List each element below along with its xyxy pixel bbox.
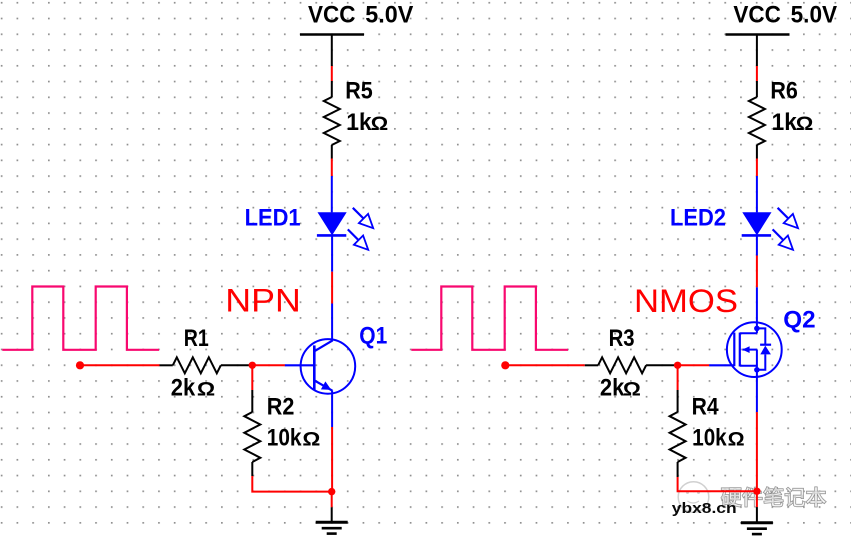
svg-text:LED1: LED1 (245, 204, 301, 231)
svg-text:R3: R3 (609, 325, 635, 352)
svg-text:ybx8.cn: ybx8.cn (672, 500, 737, 517)
svg-text:R5: R5 (345, 78, 373, 105)
svg-text:Ω: Ω (371, 113, 389, 135)
svg-text:Ω: Ω (197, 379, 215, 401)
svg-text:10k: 10k (267, 425, 302, 452)
svg-text:R1: R1 (184, 325, 209, 352)
svg-text:R4: R4 (692, 393, 720, 420)
svg-text:R2: R2 (267, 393, 295, 420)
svg-text:NPN: NPN (225, 283, 300, 319)
svg-text:1k: 1k (346, 109, 372, 136)
svg-text:Ω: Ω (796, 113, 814, 135)
svg-text:Ω: Ω (623, 379, 641, 401)
svg-text:2k: 2k (171, 375, 196, 402)
svg-text:Q1: Q1 (359, 323, 387, 350)
svg-text:VCC: VCC (308, 2, 356, 29)
svg-text:VCC: VCC (733, 2, 781, 29)
svg-text:R6: R6 (770, 78, 798, 105)
svg-text:LED2: LED2 (670, 204, 726, 231)
svg-text:Q2: Q2 (783, 306, 815, 333)
svg-text:1k: 1k (772, 109, 798, 136)
svg-text:NMOS: NMOS (634, 283, 738, 319)
svg-text:10k: 10k (692, 425, 727, 452)
svg-text:2k: 2k (600, 375, 625, 402)
svg-text:Ω: Ω (728, 429, 745, 451)
svg-text:5.0V: 5.0V (365, 2, 413, 29)
svg-text:Ω: Ω (302, 429, 320, 451)
svg-text:5.0V: 5.0V (791, 2, 838, 29)
